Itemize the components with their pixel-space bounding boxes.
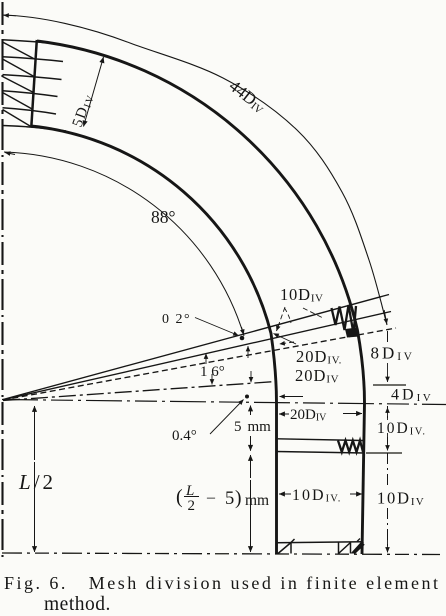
svg-text:method.: method. — [44, 594, 111, 615]
leader arrow of second 20Div label — [280, 396, 304, 398]
short dashed dimension arc for 10Div — [285, 308, 292, 323]
svg-text:1 6°: 1 6° — [200, 364, 225, 380]
L/2 dimension line — [34, 406, 36, 460]
fixed end edge (top of bend) — [31, 40, 37, 127]
svg-text:L/2: L/2 — [18, 470, 53, 494]
division line across straight pipe (5mm upper) — [278, 439, 364, 441]
dark hatched cell at outer wall bottom — [351, 543, 365, 554]
fan line F2 — [3, 312, 391, 400]
vertical centerline (dash-dot axis at left) — [1, 2, 3, 559]
arrow at top end of 88deg arc — [5, 153, 15, 155]
88 degree dimension arc — [4, 152, 244, 336]
fan line F1 (2deg boundary) — [3, 295, 389, 400]
through-thickness division lines at fixed end — [3, 40, 64, 45]
0.2deg reference dot — [240, 336, 245, 341]
chain arrow down to 4D boundary — [387, 363, 389, 382]
svg-text:Fig. 6. Mesh division used i: Fig. 6. Mesh division used in finite ele… — [4, 573, 438, 593]
last division line near bottom — [277, 542, 364, 543]
chain arrow down to bottom line — [387, 534, 389, 553]
1.6deg dimension arrows — [205, 354, 207, 365]
right dimension chain line — [387, 331, 389, 342]
5mm dimension line — [250, 406, 252, 416]
bottom hatched element at outer wall — [339, 543, 351, 554]
chain arrow up to centerline — [387, 408, 389, 421]
dark blob of arc hatched element — [345, 328, 360, 338]
5Div dimension line across band at fixed end — [84, 57, 104, 127]
20Div width dimension arrows (mid pipe) — [279, 413, 289, 415]
leader from 0.4deg label to dot — [210, 400, 244, 435]
bottom hatched element at inner wall — [278, 539, 295, 554]
svg-text:88°: 88° — [151, 207, 176, 227]
arrow at top end of 44Div arc — [4, 14, 17, 17]
10Div. width dimension arrows (lower pipe) — [279, 493, 291, 495]
inner arc of bend + inner wall of straight pipe — [31, 126, 277, 554]
dashed leaders from 10Div label — [277, 307, 286, 331]
44Div dimension arc (outside outer arc) — [2, 15, 387, 325]
hatched element on arc (zigzag) — [332, 305, 357, 334]
bottom symmetry line (dash-dot) — [2, 553, 440, 555]
0.4deg reference dot — [245, 395, 249, 399]
leader from 0 2deg label to dot — [195, 318, 239, 336]
svg-text:0 2°: 0 2° — [162, 312, 191, 327]
svg-text:5mm: 5mm — [234, 419, 271, 435]
svg-text:mm: mm — [245, 492, 269, 509]
svg-text:2: 2 — [188, 498, 196, 514]
label (L/2-5)mm — [176, 483, 269, 514]
zigzag hatched element in straight pipe — [338, 441, 363, 453]
F4 extension tick right of pipe — [373, 384, 406, 386]
division line across straight pipe (5mm lower) — [277, 452, 365, 454]
arrow at lower end of 44Div arc — [384, 310, 387, 324]
extension tick at 5mm line right of pipe — [366, 452, 402, 454]
svg-text:5: 5 — [225, 489, 234, 509]
arrow at lower end of 88deg arc — [242, 327, 244, 335]
(L/2-5)mm dimension line — [250, 455, 252, 478]
leader arrows of 20Div. label — [274, 334, 297, 345]
outer arc of bend + outer wall of straight pipe — [37, 41, 365, 554]
svg-text:(: ( — [176, 486, 183, 508]
fraction bar of L/2 — [184, 496, 199, 498]
svg-text:–: – — [206, 489, 216, 506]
svg-text:): ) — [235, 488, 242, 509]
svg-text:0.4°: 0.4° — [172, 428, 197, 444]
fan line F4 (dash-dot, 0.4deg boundary) — [3, 382, 276, 401]
fan line F3 (dashed) — [3, 328, 396, 400]
chain arrow down to 5mm line — [387, 433, 389, 451]
horizontal centerline (junction axis, dash-dot) — [2, 400, 446, 405]
wall hatching at fixed end — [3, 42, 35, 128]
